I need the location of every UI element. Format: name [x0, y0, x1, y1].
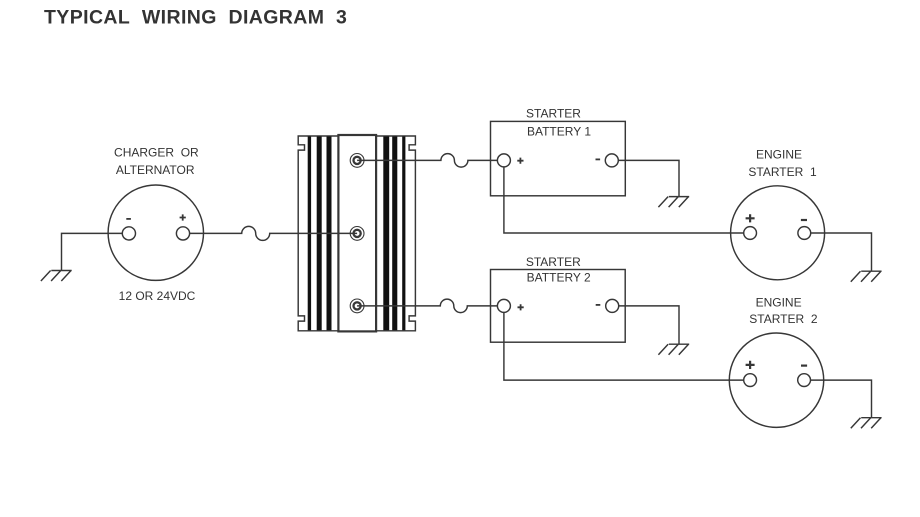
label: ENGINE STARTER 1: [748, 147, 817, 179]
wire: battery 1 negative to ground G2: [618, 160, 679, 196]
svg-text:CHARGER OR: CHARGER OR: [114, 145, 199, 159]
isolator heat-sink fins (left): [308, 137, 332, 331]
minus sign (battery 2): [596, 304, 601, 306]
isolator heat-sink fins (right): [383, 137, 405, 331]
isolator terminal stud 2 (middle): [350, 227, 364, 241]
isolator terminal stud 1 (top): [350, 154, 364, 168]
starter battery 2 box: [491, 270, 626, 343]
ground G2 (battery 1 negative): [658, 197, 689, 208]
wire: engine starter 1 negative to ground G3: [811, 233, 872, 271]
engine starter 2 negative terminal pin: [798, 374, 811, 387]
svg-text:STARTER: STARTER: [526, 255, 581, 269]
label: STARTER BATTERY 2: [526, 255, 591, 285]
battery 1 negative terminal pin: [605, 154, 618, 167]
plus sign (engine starter 2): [746, 361, 755, 369]
starter battery 1 box: [491, 121, 626, 195]
svg-text:BATTERY 2: BATTERY 2: [527, 270, 591, 284]
svg-text:12 OR 24VDC: 12 OR 24VDC: [119, 289, 196, 303]
isolator centre panel: [338, 135, 376, 331]
isolator terminal stud 3 (bottom): [350, 299, 364, 313]
ground G5 (engine starter 2 negative): [851, 418, 882, 429]
charger positive terminal pin: [176, 227, 189, 240]
ground G3 (engine starter 1 negative): [851, 271, 882, 282]
wire: battery 2 negative to ground G4: [619, 306, 679, 344]
minus sign (battery 1): [596, 158, 601, 160]
plus sign (battery 2): [518, 304, 524, 310]
svg-text:STARTER: STARTER: [526, 106, 581, 120]
wire: battery 1 positive down and across to engine starter 1 positive: [504, 167, 744, 233]
battery 1 positive terminal pin: [497, 154, 510, 167]
wire: isolator bottom terminal to starter battery 2 positive with fusible link F3: [357, 299, 497, 313]
minus sign (charger): [126, 218, 131, 220]
ground G1 (charger/alternator negative): [41, 271, 72, 282]
wire: ground G1 to charger negative terminal: [62, 233, 123, 270]
plus sign (battery 1): [517, 158, 523, 164]
battery isolator outline (heat-sink body with corner notches): [298, 136, 415, 331]
battery 2 negative terminal pin: [606, 299, 619, 312]
engine starter 2 positive terminal pin: [744, 374, 757, 387]
wire: charger positive to isolator middle terminal with fusible link F1: [190, 226, 358, 240]
svg-text:ALTERNATOR: ALTERNATOR: [116, 163, 195, 177]
engine starter 1 body circle: [731, 186, 825, 280]
label: CHARGER OR ALTERNATOR: [114, 145, 199, 177]
value label: 12 OR 24VDC: [119, 289, 196, 303]
wire: engine starter 2 negative to ground G5: [811, 380, 872, 418]
svg-text:ENGINE: ENGINE: [756, 147, 802, 161]
ground G4 (battery 2 negative): [658, 344, 689, 355]
label: STARTER BATTERY 1: [526, 106, 591, 138]
charger negative terminal pin: [122, 227, 135, 240]
engine starter 1 positive terminal pin: [744, 227, 757, 240]
minus sign (engine starter 2): [801, 365, 807, 367]
svg-text:STARTER 2: STARTER 2: [749, 312, 818, 326]
engine starter 1 negative terminal pin: [798, 227, 811, 240]
charger/alternator body circle: [108, 185, 203, 280]
engine starter 2 body circle: [729, 333, 823, 427]
wire: battery 2 positive down and across to engine starter 2 positive: [504, 312, 744, 380]
svg-text:STARTER 1: STARTER 1: [748, 165, 817, 179]
label: ENGINE STARTER 2: [749, 295, 818, 326]
title: TYPICAL WIRING DIAGRAM 3: [44, 7, 347, 29]
battery 2 positive terminal pin: [497, 299, 510, 312]
plus sign (engine starter 1): [746, 214, 755, 222]
plus sign (charger): [180, 214, 186, 220]
svg-text:TYPICAL WIRING DIAGRAM 3: TYPICAL WIRING DIAGRAM 3: [44, 7, 347, 29]
wire: isolator top terminal to starter battery 1 positive with fusible link F2: [357, 154, 497, 168]
svg-text:BATTERY 1: BATTERY 1: [527, 124, 591, 138]
minus sign (engine starter 1): [801, 219, 807, 221]
svg-text:ENGINE: ENGINE: [756, 295, 802, 309]
